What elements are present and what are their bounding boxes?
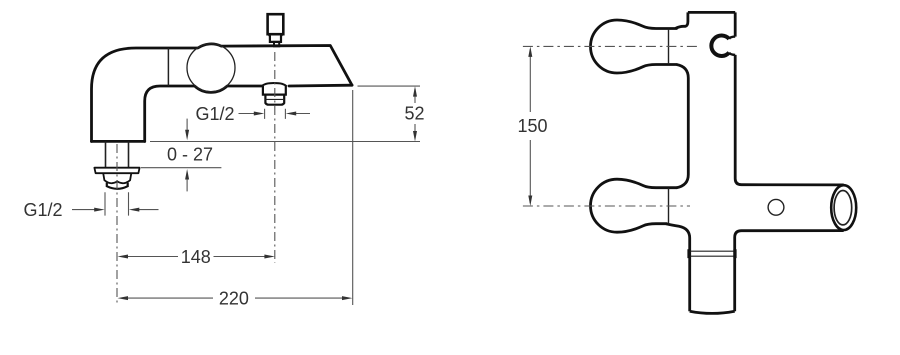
extension line at spout nose level	[358, 85, 421, 87]
top plate edge	[688, 11, 735, 14]
G1/2 left: right arrow pointing left	[138, 209, 159, 211]
dimension 148: line with outward arrows	[126, 256, 267, 258]
bottom edge of mounting leg	[92, 140, 145, 143]
spout end inner ellipse (bore)	[834, 191, 852, 225]
extension line below flange (0-27 lower reference)	[141, 167, 221, 169]
outlet collar joint lines	[690, 251, 734, 256]
outlet left edge with fillet into lower handle neck	[666, 224, 690, 312]
joint line between elbow and valve body	[167, 48, 169, 86]
lower handle bulb and neck	[591, 179, 677, 232]
spout arm top edge	[742, 183, 844, 186]
centerline of inlet pipe (dash-dot)	[116, 144, 118, 306]
thread mid line	[265, 98, 284, 100]
mounting flange plate	[94, 168, 139, 174]
svg-text:148: 148	[181, 247, 211, 267]
spout bottom line left of stub, knob bump, inner elbow fillet	[145, 86, 262, 141]
body step at top-left	[676, 12, 688, 28]
lower handle joint line	[668, 188, 670, 224]
hand-shower outlet stub: collar	[263, 86, 286, 95]
hand-shower outlet stub: G1/2 thread	[265, 95, 284, 105]
svg-text:220: 220	[219, 288, 249, 308]
outlet collar edge steps	[689, 249, 735, 258]
G1/2 left: extension ticks	[105, 192, 129, 215]
dimension 52: vertical line with arrows	[414, 89, 416, 138]
outlet bottom edge	[690, 311, 735, 313]
centerline of shower outlet stub (dash-dot)	[274, 52, 276, 263]
G1/2 top: extension ticks	[265, 109, 286, 119]
svg-text:G1/2: G1/2	[23, 200, 62, 220]
faucet body outline (left leg, elbow, top of spout, slanted nose)	[92, 44, 353, 142]
svg-text:G1/2: G1/2	[195, 104, 234, 124]
extension line from spout nose down (220 right reference)	[352, 90, 354, 305]
hand-shower outlet stub: dome shoulder	[262, 83, 287, 86]
control knob circle (cartridge)	[187, 44, 235, 92]
shower hook stubs	[729, 37, 735, 55]
spout arm bottom edge with fillet into outlet right edge	[735, 231, 844, 312]
extension line at mounting plane	[150, 141, 420, 143]
upper handle centerline (dash-dot)	[523, 45, 697, 47]
inlet pipe edges below leg	[106, 141, 129, 167]
diverter knob on top of spout	[268, 14, 284, 46]
upper handle bulb and neck	[591, 20, 677, 73]
dimension 0-27: upper arrow pointing down	[186, 119, 188, 132]
spout bottom line right of shower outlet stub	[289, 84, 352, 88]
shower hook C-ring	[711, 36, 729, 56]
dimension 150: vertical line with arrows	[529, 50, 531, 204]
svg-text:0 - 27: 0 - 27	[167, 145, 213, 165]
right edge below hook down to spout arm	[735, 55, 741, 185]
upper handle joint line	[668, 29, 670, 65]
right edge above hook	[734, 12, 737, 36]
set screw hole on arm	[768, 199, 784, 215]
spout end outer ellipse	[831, 185, 856, 230]
G1/2 top: left arrow pointing right	[239, 113, 257, 115]
lower collar of nut	[107, 183, 128, 189]
clamping nut with scalloped bottom	[103, 173, 131, 183]
svg-text:52: 52	[404, 104, 424, 124]
body left edge between handles	[677, 65, 689, 188]
dimension 220: line with outward arrows	[126, 297, 344, 299]
G1/2 left: left arrow pointing right	[72, 209, 96, 211]
svg-text:150: 150	[517, 116, 547, 136]
G1/2 top: right arrow pointing left	[294, 113, 311, 115]
lower handle centerline (dash-dot)	[523, 205, 690, 207]
dimension 0-27: lower arrow pointing up	[186, 178, 188, 191]
